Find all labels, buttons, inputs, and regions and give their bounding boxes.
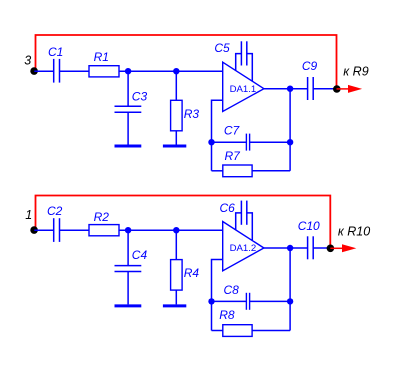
junction node (output) <box>287 86 293 92</box>
output arrow (red, bottom) <box>330 244 356 252</box>
junction node (R4 tap) <box>173 227 179 233</box>
ground (C3) <box>115 145 142 148</box>
wire output junction down to feedback (bottom) <box>289 248 291 331</box>
ground (R4) <box>163 304 186 307</box>
ground (R3) <box>163 145 186 148</box>
junction node (C8 left) <box>208 298 214 304</box>
capacitor C3 <box>115 71 148 144</box>
output arrow (red) <box>337 85 363 93</box>
wire C1 to R1 <box>60 70 90 72</box>
resistor R1 <box>89 50 119 77</box>
resistor R4 <box>171 230 200 304</box>
svg-text:C7: C7 <box>224 124 241 138</box>
svg-text:C5: C5 <box>214 41 230 55</box>
wire C2 to R2 <box>60 229 90 231</box>
junction node (C3 tap) <box>125 68 131 74</box>
junction node (C8 right) <box>287 298 293 304</box>
svg-text:R4: R4 <box>184 266 200 280</box>
capacitor C2 <box>47 204 63 242</box>
op-amp DA1.2 <box>223 222 264 271</box>
wire inverting input stub (bottom) <box>212 260 223 331</box>
wire C9 to output node <box>313 88 336 90</box>
resistor R7 <box>212 149 291 177</box>
wire inverting input stub <box>212 100 223 171</box>
capacitor C5 <box>214 41 252 81</box>
capacitor C7 <box>212 124 291 151</box>
node 1 <box>30 226 38 234</box>
capacitor C1 <box>48 45 63 82</box>
svg-text:C9: C9 <box>302 59 318 73</box>
wire C10 to output node <box>313 247 330 249</box>
junction node (output, bottom) <box>287 245 293 251</box>
svg-text:C1: C1 <box>48 45 63 59</box>
junction node (C7 right) <box>287 139 293 145</box>
svg-text:C4: C4 <box>132 248 148 262</box>
junction node (C7 left) <box>208 139 214 145</box>
wire output junction down to feedback <box>289 89 291 171</box>
output node (to R10) <box>327 245 335 253</box>
svg-text:C8: C8 <box>224 283 240 297</box>
output node (to R9) <box>333 85 341 93</box>
red feedback wire (output to input, top) <box>36 35 337 89</box>
wire node 3 to C1 <box>34 70 53 72</box>
capacitor C6 <box>220 201 253 241</box>
capacitor C8 <box>212 283 291 310</box>
svg-text:R1: R1 <box>94 50 109 64</box>
capacitor C4 <box>115 230 148 304</box>
wire R2 to op-amp input <box>119 229 223 231</box>
junction node (C4 tap) <box>125 227 131 233</box>
wire node 1 to C2 <box>34 229 53 231</box>
junction node (R3 tap) <box>173 68 179 74</box>
ground (C4) <box>115 304 142 307</box>
wire R1 to op-amp input <box>119 70 223 72</box>
svg-text:R3: R3 <box>184 107 200 121</box>
svg-text:C3: C3 <box>132 89 148 103</box>
red feedback wire (output to input, bottom) <box>36 196 331 249</box>
op-amp DA1.1 <box>223 62 264 111</box>
capacitor C9 <box>302 59 318 100</box>
svg-text:R7: R7 <box>225 149 242 163</box>
svg-text:C6: C6 <box>220 201 236 215</box>
svg-text:C10: C10 <box>298 219 320 233</box>
svg-text:1: 1 <box>25 208 32 222</box>
svg-text:DA1.1: DA1.1 <box>230 84 257 95</box>
node 3 <box>30 67 38 75</box>
wire op-amp output <box>264 88 307 90</box>
wire op-amp output (bottom) <box>264 247 307 249</box>
resistor R3 <box>171 71 200 144</box>
svg-text:DA1.2: DA1.2 <box>230 243 257 254</box>
svg-text:C2: C2 <box>47 204 63 218</box>
capacitor C10 <box>298 219 320 259</box>
svg-text:3: 3 <box>24 54 31 68</box>
resistor R8 <box>212 308 291 337</box>
svg-text:к R10: к R10 <box>338 224 370 238</box>
svg-text:R8: R8 <box>219 308 235 322</box>
resistor R2 <box>89 210 119 236</box>
svg-text:R2: R2 <box>94 210 110 224</box>
svg-text:к R9: к R9 <box>343 65 368 79</box>
